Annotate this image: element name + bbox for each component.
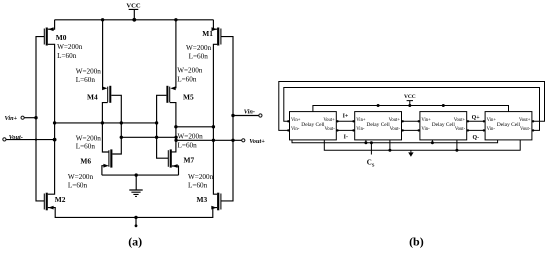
svg-text:Vin-: Vin- [244, 109, 255, 116]
svg-text:Vout-: Vout- [324, 127, 335, 132]
svg-text:Delay Cell: Delay Cell [497, 122, 521, 128]
svg-text:L=60n: L=60n [189, 52, 209, 60]
svg-text:VCC: VCC [404, 94, 416, 100]
svg-text:L=60n: L=60n [68, 181, 88, 189]
svg-text:Vin+: Vin+ [421, 118, 431, 123]
svg-text:(b): (b) [409, 234, 424, 248]
svg-text:Vout-: Vout- [520, 127, 531, 132]
svg-text:Vin-: Vin- [487, 127, 496, 132]
svg-text:S: S [372, 163, 375, 168]
svg-text:Delay Cell: Delay Cell [301, 122, 325, 128]
svg-text:L=60n: L=60n [188, 181, 208, 189]
svg-text:Vin-: Vin- [421, 127, 430, 132]
svg-text:I-: I- [344, 135, 348, 141]
svg-text:(a): (a) [128, 234, 142, 248]
svg-text:M4: M4 [87, 93, 98, 102]
svg-text:Vout+: Vout+ [323, 118, 335, 123]
svg-text:W=200n: W=200n [188, 173, 214, 181]
svg-text:W=200n: W=200n [57, 43, 83, 51]
svg-text:Vout+: Vout+ [389, 118, 401, 123]
svg-text:I+: I+ [343, 114, 349, 120]
svg-text:M6: M6 [80, 157, 91, 166]
svg-text:Delay Cell: Delay Cell [432, 122, 456, 128]
svg-text:Vin+: Vin+ [5, 115, 18, 122]
svg-text:W=200n: W=200n [76, 134, 102, 142]
svg-text:Vout-: Vout- [9, 134, 23, 141]
svg-text:L=60n: L=60n [76, 76, 96, 84]
svg-text:L=60n: L=60n [57, 52, 77, 60]
svg-text:Vout-: Vout- [455, 127, 466, 132]
svg-text:Q-: Q- [473, 135, 480, 141]
svg-text:L=60n: L=60n [177, 75, 197, 83]
svg-text:M1: M1 [202, 29, 213, 38]
svg-text:M2: M2 [55, 195, 66, 204]
svg-text:Vin+: Vin+ [356, 118, 366, 123]
svg-text:Vin+: Vin+ [291, 118, 301, 123]
svg-text:W=200n: W=200n [186, 44, 212, 52]
svg-text:W=200n: W=200n [68, 173, 94, 181]
svg-text:W=200n: W=200n [76, 68, 102, 76]
svg-text:Delay Cell: Delay Cell [366, 122, 390, 128]
svg-text:M5: M5 [183, 93, 194, 102]
svg-text:M3: M3 [197, 195, 208, 204]
svg-text:Vout-: Vout- [390, 127, 401, 132]
svg-text:L=60n: L=60n [178, 142, 198, 150]
svg-text:Vout+: Vout+ [519, 118, 531, 123]
svg-text:VCC: VCC [126, 3, 141, 10]
svg-text:L=60n: L=60n [76, 143, 96, 151]
svg-text:Vin-: Vin- [356, 127, 365, 132]
svg-text:Vin-: Vin- [291, 127, 300, 132]
svg-text:M7: M7 [184, 156, 195, 165]
svg-text:W=200n: W=200n [178, 133, 204, 141]
svg-text:Q+: Q+ [472, 115, 481, 121]
svg-text:Vout+: Vout+ [454, 118, 466, 123]
svg-text:Vin+: Vin+ [487, 118, 497, 123]
svg-text:M0: M0 [56, 33, 67, 42]
svg-text:Vout+: Vout+ [249, 138, 265, 145]
svg-text:W=200n: W=200n [177, 67, 203, 75]
